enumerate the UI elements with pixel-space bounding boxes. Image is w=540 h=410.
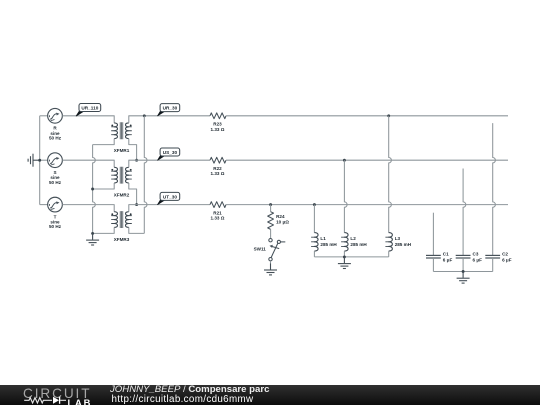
wire C3 bottom lead — [462, 258, 464, 272]
junction UR_30 delta return — [143, 114, 146, 117]
wire R24 to switch — [270, 229, 272, 238]
svg-text:XFMR1: XFMR1 — [114, 148, 130, 153]
svg-text:6 μF: 6 μF — [443, 257, 453, 262]
junction neutral XFMR2 — [91, 188, 94, 191]
wire L2 bottom lead — [343, 251, 345, 257]
wire C1 bottom lead — [432, 258, 434, 272]
svg-text:10 μΩ: 10 μΩ — [276, 220, 289, 225]
wire L3 top lead with hops — [389, 116, 392, 233]
svg-text:50 Hz: 50 Hz — [49, 180, 62, 185]
footer url text — [112, 394, 254, 405]
junction neutral ground — [91, 232, 94, 235]
net flag US_30 — [158, 148, 180, 160]
svg-text:C2: C2 — [502, 252, 508, 257]
label source T — [49, 215, 62, 230]
wire C1 top lead — [432, 213, 434, 256]
inductor L3 — [385, 233, 411, 251]
net flag UT_30 — [158, 192, 180, 204]
svg-text:UT_30: UT_30 — [163, 194, 177, 199]
ground neutral — [86, 233, 99, 245]
svg-text:285 mH: 285 mH — [395, 242, 412, 247]
wire S row right segment — [226, 159, 508, 161]
svg-text:6 μF: 6 μF — [502, 257, 512, 262]
svg-text:1.33 Ω: 1.33 Ω — [211, 171, 225, 176]
junction S row L2 — [343, 159, 346, 162]
junction capacitor rail ground — [462, 270, 465, 273]
junction R row L3 — [387, 114, 390, 117]
inductor L1 — [311, 233, 337, 251]
CircuitLab logo word LAB — [68, 397, 93, 408]
junction inductor rail ground — [343, 255, 346, 258]
svg-text:L1: L1 — [320, 236, 326, 241]
footer title text — [110, 384, 269, 395]
svg-text:6 μF: 6 μF — [473, 257, 483, 262]
wire L1 bottom lead — [313, 251, 315, 257]
transformer XFMR3 — [111, 211, 132, 228]
CircuitLab logo resistor-diode glyph — [23, 394, 73, 406]
capacitor C2 — [485, 252, 511, 263]
label source S — [49, 170, 62, 185]
switch SW11 — [269, 239, 286, 261]
voltage source V3 T — [48, 197, 63, 212]
wire XFMR3 secondary bottom delta return — [129, 227, 145, 233]
wire L3 bottom lead — [388, 251, 390, 257]
wire C2 bottom lead — [492, 258, 494, 272]
ground switch — [264, 263, 277, 275]
label source R — [49, 126, 62, 141]
resistor R23 — [210, 113, 226, 132]
resistor R22 — [210, 157, 226, 176]
net flag UR_110 — [76, 104, 101, 117]
voltage source V2 S — [48, 153, 63, 168]
wire XFMR1 secondary top to UR_30 row — [129, 116, 210, 123]
svg-text:R24: R24 — [276, 214, 285, 219]
wire XFMR1 secondary bottom to US_30 — [129, 139, 137, 161]
svg-text:L2: L2 — [350, 236, 356, 241]
wire capacitor bottom rail — [433, 271, 492, 273]
svg-text:C1: C1 — [443, 252, 449, 257]
junction UT_30 link — [135, 203, 138, 206]
junction US_30 link — [135, 159, 138, 162]
svg-text:285 mH: 285 mH — [320, 242, 337, 247]
svg-text:1.33 Ω: 1.33 Ω — [211, 216, 225, 221]
wire XFMR1 primary bottom to neutral — [93, 139, 115, 145]
svg-text:XFMR2: XFMR2 — [114, 193, 130, 198]
junction T row R24 — [269, 203, 272, 206]
wire delta return vertical with hops — [144, 116, 147, 234]
wire source S left stub — [40, 159, 48, 161]
wire L2 top lead with hop — [344, 160, 347, 232]
svg-text:50 Hz: 50 Hz — [49, 224, 62, 229]
wire R row source to XFMR1 primary — [62, 116, 114, 123]
wire XFMR2 primary bottom to neutral — [93, 183, 115, 189]
svg-text:50 Hz: 50 Hz — [49, 135, 62, 140]
wire XFMR3 secondary top to UT_30 row — [129, 205, 210, 212]
wire left common vertical — [39, 116, 41, 205]
resistor R21 — [210, 202, 226, 221]
resistor R24 — [268, 212, 290, 230]
CircuitLab logo word CIRCUIT — [23, 386, 91, 401]
junction left ground — [38, 159, 41, 162]
wire R row right segment — [226, 115, 508, 117]
svg-text:C3: C3 — [473, 252, 479, 257]
wire inductor bottom rail — [314, 256, 388, 258]
wire source R left stub — [40, 115, 48, 117]
wire T row source to XFMR3 primary — [62, 205, 114, 212]
wire T row right segment — [226, 204, 508, 206]
wire C2 top lead with hops — [493, 123, 496, 255]
svg-text:XFMR3: XFMR3 — [114, 237, 130, 242]
transformer XFMR1 — [111, 122, 132, 139]
wire R24 top lead — [270, 205, 272, 212]
svg-text:L3: L3 — [395, 236, 401, 241]
transformer XFMR2 — [111, 167, 132, 184]
capacitor C3 — [456, 252, 482, 263]
footer bar — [0, 385, 540, 405]
ground capacitor rail — [457, 272, 470, 284]
wire S row source to XFMR2 primary — [62, 160, 114, 167]
wire XFMR3 primary bottom to neutral — [93, 227, 115, 233]
svg-text:285 mH: 285 mH — [350, 242, 367, 247]
svg-text:SW11: SW11 — [254, 246, 267, 251]
svg-text:UR_110: UR_110 — [81, 105, 98, 110]
svg-text:1.33 Ω: 1.33 Ω — [211, 127, 225, 132]
wire C3 top lead with hop — [463, 169, 466, 256]
wire L1 top lead — [313, 205, 315, 233]
wire source T left stub — [40, 204, 48, 206]
wire XFMR2 secondary top to US_30 row — [129, 160, 210, 167]
inductor L2 — [341, 233, 367, 251]
wire XFMR2 secondary bottom to UT_30 — [129, 183, 137, 205]
net flag UR_30 — [158, 104, 180, 116]
capacitor C1 — [426, 252, 452, 263]
wire neutral vertical with hops — [93, 145, 96, 234]
wire switch to ground — [270, 261, 272, 263]
voltage source V1 R — [48, 108, 63, 123]
svg-text:UR_30: UR_30 — [163, 106, 178, 111]
ground left of source column — [28, 154, 40, 167]
svg-text:US_30: US_30 — [163, 150, 178, 155]
junction T row L1 — [313, 203, 316, 206]
ground inductor rail — [338, 257, 351, 269]
